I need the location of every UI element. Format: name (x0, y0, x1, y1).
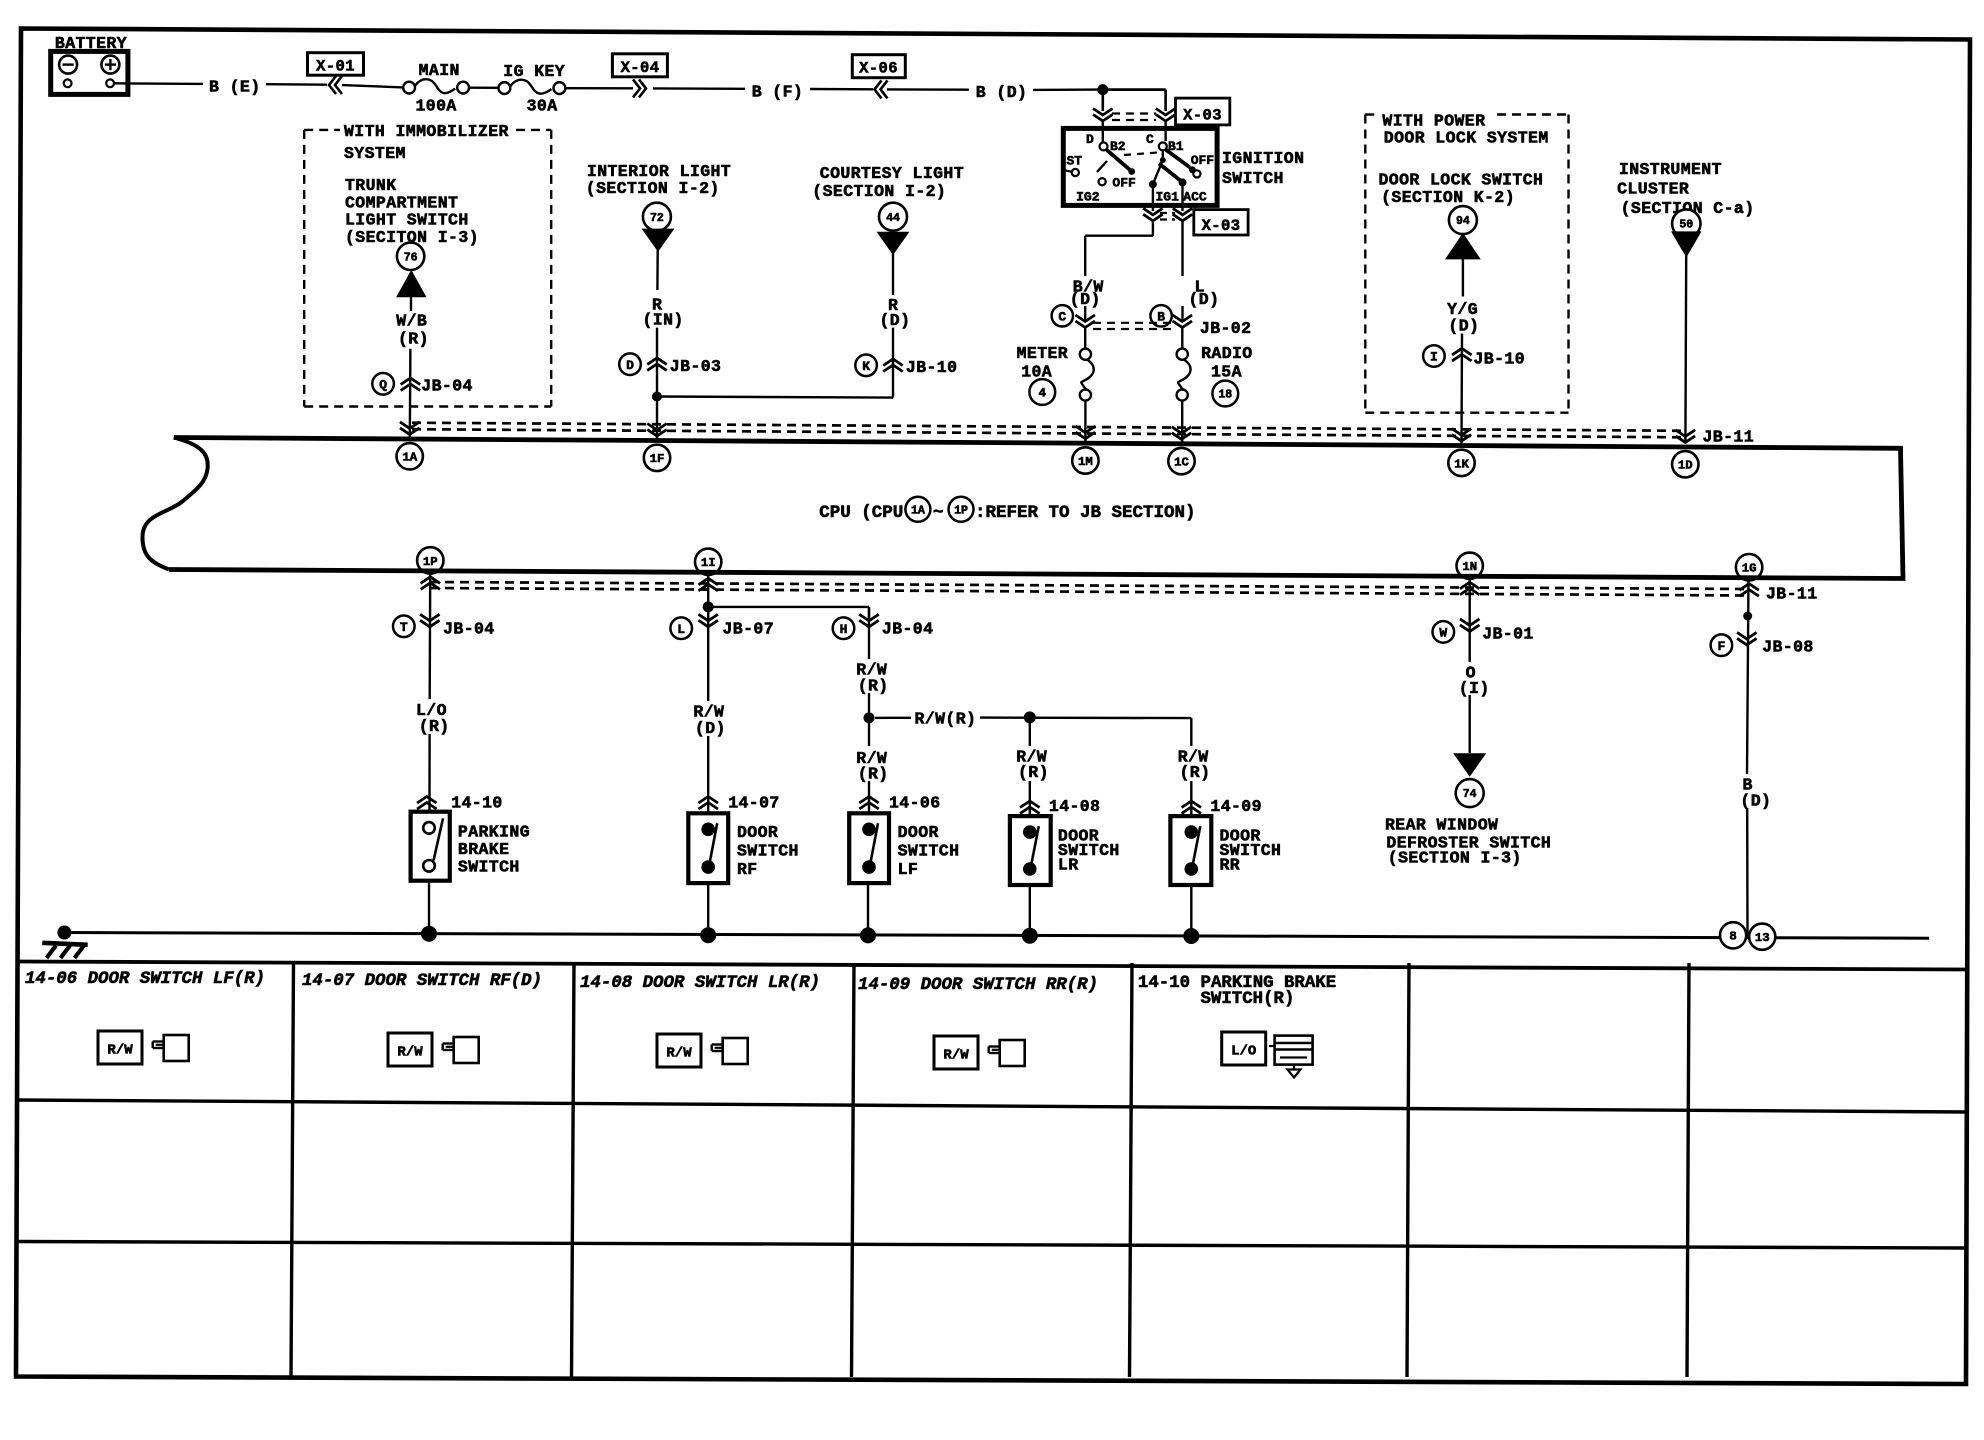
table cell 14-10 wire color L/O and switch icon (1222, 1032, 1313, 1078)
svg-text:X-03: X-03 (1183, 107, 1222, 125)
svg-text:JB-07: JB-07 (723, 619, 775, 638)
wire battery to X-01 (114, 82, 203, 85)
connector X-03 (upper, wires into ignition switch) (1093, 90, 1175, 145)
svg-text:X-04: X-04 (621, 59, 660, 77)
svg-text:CLUSTER: CLUSTER (1617, 180, 1689, 199)
wire to JB-10 K (892, 328, 894, 398)
svg-text:1N: 1N (1462, 560, 1477, 574)
svg-text:IG2: IG2 (1076, 190, 1100, 205)
wire MAIN to IG KEY fuse (469, 86, 498, 89)
svg-text:I: I (1430, 350, 1438, 365)
arrow from instrument cluster (1673, 232, 1700, 255)
svg-text:JB-04: JB-04 (882, 619, 934, 638)
svg-text:(R): (R) (419, 717, 450, 736)
parking brake switch (411, 812, 450, 881)
svg-text:B (D): B (D) (976, 83, 1028, 102)
svg-text:X-03: X-03 (1202, 217, 1241, 235)
svg-text:1I: 1I (701, 556, 716, 570)
svg-text:OFF: OFF (1112, 176, 1136, 191)
svg-text:(R): (R) (1018, 763, 1049, 782)
svg-text:WITH IMMOBILIZER: WITH IMMOBILIZER (344, 122, 509, 141)
arrow from courtesy light (879, 233, 908, 254)
connector 14-08 (1020, 801, 1040, 808)
svg-text:(D): (D) (880, 311, 911, 330)
wire JB-08 F down (1746, 808, 1749, 936)
wire JB-01 W down (1468, 695, 1470, 753)
junction LF branch node (864, 712, 875, 723)
svg-text:BATTERY: BATTERY (55, 34, 127, 53)
svg-text:ACC: ACC (1183, 190, 1207, 205)
battery (51, 51, 128, 94)
connector CPU pin 1N (1457, 553, 1483, 595)
door switch RR (1170, 816, 1211, 885)
svg-text:LF: LF (898, 860, 919, 879)
wire meter fuse to CPU 1M (1084, 401, 1086, 443)
connector X-04 (612, 54, 667, 77)
svg-text:JB-01: JB-01 (1482, 624, 1534, 643)
CPU block torn-edge brace (142, 438, 207, 570)
svg-text:MAIN: MAIN (419, 61, 460, 80)
svg-text:X-06: X-06 (859, 60, 898, 78)
wire 1I junction to door switch RF (707, 607, 709, 621)
svg-text:INSTRUMENT: INSTRUMENT (1619, 160, 1722, 179)
wire door switch RF to ground (707, 883, 709, 935)
svg-text:SWITCH: SWITCH (1222, 169, 1284, 188)
table cell 14-07 wire color R/W and pigtail icon (388, 1033, 479, 1066)
circuit ref 94 (door lock switch) (1449, 206, 1477, 234)
svg-text:L/O: L/O (1231, 1044, 1256, 1060)
junction battery ground to rail (57, 926, 71, 940)
svg-text:REAR WINDOW: REAR WINDOW (1385, 815, 1498, 834)
arrow to door lock switch (1447, 235, 1479, 259)
wire JB-10 K to junction (657, 397, 893, 398)
wire R/W branch LF to LR/RR (875, 717, 911, 720)
svg-text:Q: Q (379, 377, 387, 392)
wire X-01 to MAIN fuse (342, 85, 403, 87)
svg-text:(SECTION K-2): (SECTION K-2) (1381, 188, 1515, 207)
svg-text:JB-08: JB-08 (1762, 638, 1814, 657)
wire LF junction down (868, 718, 870, 746)
svg-text:B (E): B (E) (209, 78, 261, 97)
fuse IG KEY 30A (499, 82, 511, 94)
svg-text:15A: 15A (1211, 362, 1242, 381)
wire ACC to radio fuse (L) (1181, 221, 1183, 276)
svg-text:R/W: R/W (397, 1045, 423, 1061)
svg-text:(I): (I) (1459, 679, 1490, 698)
wire trunk switch lead (410, 296, 412, 311)
CPU block outline (169, 438, 1903, 579)
svg-text:1P: 1P (954, 504, 968, 517)
connector JB-04 pin H (833, 617, 855, 639)
svg-text:18: 18 (1218, 389, 1232, 402)
svg-text:14-07: 14-07 (728, 793, 780, 812)
junction door switch RR ground (1183, 928, 1199, 944)
svg-text:(D): (D) (1448, 317, 1479, 336)
wire JB-07 L down (707, 607, 709, 701)
svg-text:JB-10: JB-10 (1474, 350, 1526, 369)
wire door switch RR to ground (1190, 885, 1192, 936)
svg-text:14-08: 14-08 (1049, 797, 1101, 816)
svg-text:14-10: 14-10 (451, 793, 503, 812)
svg-text:94: 94 (1456, 215, 1470, 228)
svg-text:D: D (1086, 132, 1094, 147)
svg-text:JB-04: JB-04 (421, 377, 473, 396)
svg-text:72: 72 (650, 212, 664, 225)
svg-text:L: L (677, 622, 685, 637)
svg-text:C: C (1146, 132, 1154, 147)
connector JB-02 pin C (1052, 305, 1073, 326)
arrow to trunk light switch (398, 272, 425, 296)
svg-text:10A: 10A (1021, 362, 1052, 381)
junction parking brake ground (421, 926, 437, 942)
svg-text:1D: 1D (1678, 459, 1693, 473)
svg-text:IG1: IG1 (1156, 190, 1180, 205)
door switch LF (849, 813, 889, 883)
svg-text:1P: 1P (423, 555, 438, 569)
svg-text:13: 13 (1755, 931, 1770, 945)
svg-text:74: 74 (1463, 788, 1477, 801)
svg-text:14-09 DOOR SWITCH RR(R): 14-09 DOOR SWITCH RR(R) (858, 976, 1098, 995)
svg-text:IG KEY: IG KEY (503, 62, 565, 81)
svg-text:DOOR: DOOR (898, 823, 939, 842)
connector X-03 label (upper) (1176, 98, 1230, 125)
wire door lock lead (1462, 258, 1464, 296)
wire 1I junction to LF branch (708, 606, 869, 608)
wire door switch LF to ground (867, 883, 869, 935)
svg-text:C: C (1058, 309, 1066, 324)
svg-text:B (F): B (F) (752, 82, 804, 101)
svg-text:1A: 1A (402, 451, 417, 465)
svg-text:ST: ST (1067, 153, 1083, 168)
svg-text:F: F (1717, 639, 1725, 654)
svg-text:JB-04: JB-04 (443, 619, 495, 638)
svg-text:(R): (R) (398, 330, 429, 349)
svg-text:SYSTEM: SYSTEM (344, 144, 406, 163)
wire to JB-03 D (656, 328, 658, 440)
wire parking brake switch to ground (428, 881, 430, 934)
table cell 14-09 wire color R/W and pigtail icon (934, 1036, 1025, 1069)
connector JB-04 pin Q (372, 373, 394, 395)
svg-text:14-09: 14-09 (1210, 797, 1262, 816)
wire X-06 to ignition junction (887, 88, 969, 91)
connector CPU pin 1C (1168, 427, 1194, 474)
svg-text:COMPARTMENT: COMPARTMENT (345, 193, 458, 212)
svg-text:4: 4 (1039, 387, 1047, 401)
circuit ref 76 (trunk compartment light switch) (397, 243, 424, 270)
svg-text:(R): (R) (1180, 763, 1211, 782)
table cell 14-06 wire color R/W and pigtail icon (98, 1031, 189, 1064)
svg-text:CPU (CPU: CPU (CPU (819, 503, 903, 523)
svg-text:R/W: R/W (943, 1048, 969, 1064)
connector CPU pin 1A (397, 422, 423, 469)
wire IG KEY to X-04 (566, 87, 634, 90)
svg-text:LIGHT SWITCH: LIGHT SWITCH (345, 211, 469, 230)
connector X-03 label (lower) (1194, 210, 1248, 235)
connector CPU pin 1M (1072, 426, 1098, 474)
svg-text:T: T (400, 620, 408, 635)
svg-text:D: D (626, 358, 634, 373)
circuit ref 72 (interior light) (643, 203, 671, 231)
JB-02 dashed links and label (1093, 322, 1174, 324)
svg-text:14-07 DOOR SWITCH RF(D): 14-07 DOOR SWITCH RF(D) (302, 972, 542, 991)
ground bus wire (body ground rail) (64, 933, 1929, 939)
svg-text:(R): (R) (858, 676, 889, 695)
connector X-03 (lower) (1143, 205, 1192, 220)
dashed option box WITH IMMOBILIZER SYSTEM (304, 130, 551, 407)
connector 14-06 (859, 797, 879, 804)
arrow to rear window defroster switch (1455, 754, 1484, 775)
connector CPU pin 1P (417, 547, 443, 589)
svg-text:1C: 1C (1174, 456, 1189, 470)
svg-text:JB-11: JB-11 (1766, 585, 1818, 604)
circuit ref 74 (rear window defroster switch) (1456, 779, 1484, 807)
connector 14-09 (1182, 801, 1202, 808)
connector 14-07 (698, 797, 718, 804)
wire IG1 to meter fuse (B/W) (1152, 221, 1154, 236)
svg-text:DOOR: DOOR (737, 823, 778, 842)
svg-text:76: 76 (404, 251, 418, 264)
wire to JB-10 I (1460, 334, 1463, 445)
svg-text:(D): (D) (1070, 290, 1101, 309)
junction CPU 1I node (707, 574, 709, 607)
wire CPU 1G to JB-08 F (1747, 579, 1749, 775)
svg-text:METER: METER (1017, 344, 1069, 363)
svg-text:1G: 1G (1742, 562, 1757, 576)
svg-text:(R): (R) (858, 765, 889, 784)
svg-text:TRUNK: TRUNK (345, 176, 397, 195)
connector JB-02 pin B (1150, 305, 1171, 326)
dashed option box WITH POWER DOOR LOCK SYSTEM (1365, 115, 1568, 413)
connector JB-08 pin F (1711, 634, 1733, 656)
connector JB-10 pin I (1423, 345, 1445, 367)
junction LR branch node (1024, 711, 1036, 723)
wire door switch LR to ground (1029, 885, 1031, 936)
connector CPU pin 1G (1736, 554, 1762, 596)
wire RR corner down (1190, 718, 1192, 746)
svg-text:RADIO: RADIO (1201, 344, 1253, 363)
junction node ignition feed (1097, 84, 1108, 95)
svg-text:100A: 100A (416, 97, 457, 116)
wire cluster to CPU 1D (1684, 256, 1687, 444)
connector JB-01 pin W (1433, 621, 1455, 643)
wire JB-04 T down (428, 734, 431, 812)
svg-text:(D): (D) (695, 719, 726, 738)
svg-text:14-08 DOOR SWITCH LR(R): 14-08 DOOR SWITCH LR(R) (580, 974, 820, 993)
connector CPU pin 1I (695, 549, 721, 591)
svg-text:JB-10: JB-10 (906, 358, 958, 377)
wire interior light lead (656, 250, 659, 290)
svg-text:1M: 1M (1078, 455, 1093, 469)
table cell 14-08 wire color R/W and pigtail icon (657, 1034, 748, 1067)
door switch RF (688, 813, 728, 883)
connector JB-03 pin D (619, 353, 641, 375)
fuse METER 10A (1080, 349, 1091, 360)
wire JB-04 H down (868, 607, 870, 659)
arrow from interior light (644, 230, 673, 251)
svg-text:~: ~ (933, 503, 944, 523)
wire X-04 to X-06 (653, 87, 745, 90)
ground connectors 8 and 13 (1720, 922, 1746, 948)
svg-text:(IN): (IN) (643, 311, 684, 330)
svg-text:R/W: R/W (666, 1046, 692, 1062)
wire junction to ignition switch C (1103, 88, 1166, 91)
svg-text:R/W(R): R/W(R) (915, 710, 977, 729)
svg-text:(SECTION I-3): (SECTION I-3) (1388, 849, 1522, 868)
svg-text:(D): (D) (1189, 290, 1220, 309)
svg-text:30A: 30A (527, 97, 558, 116)
ground symbol (42, 943, 87, 958)
JB-11 dashed bus (lower) (430, 582, 1748, 589)
svg-text:SWITCH: SWITCH (737, 842, 799, 861)
svg-text:14-06: 14-06 (889, 793, 941, 812)
connector JB-04 pin T (393, 616, 415, 638)
fuse MAIN 100A (403, 82, 415, 94)
svg-text:X-01: X-01 (316, 58, 355, 76)
svg-text:COURTESY LIGHT: COURTESY LIGHT (820, 164, 964, 183)
connector CPU pin 1D (1672, 430, 1698, 477)
circuit ref 44 (courtesy light) (879, 203, 907, 231)
svg-text:(SECTION I-2): (SECTION I-2) (586, 179, 720, 198)
svg-text:14-06 DOOR SWITCH LF(R): 14-06 DOOR SWITCH LF(R) (25, 970, 265, 989)
connector table grid (17, 962, 1970, 1378)
svg-text:44: 44 (886, 212, 900, 225)
connector CPU pin 1K (1448, 429, 1474, 476)
junction door switch LR ground (1022, 928, 1038, 944)
svg-text:W/B: W/B (396, 311, 427, 330)
svg-text:1A: 1A (911, 504, 925, 517)
connector JB-07 pin L (670, 617, 692, 639)
svg-text:8: 8 (1729, 930, 1736, 944)
svg-text:BRAKE: BRAKE (458, 840, 510, 859)
door switch LR (1010, 816, 1051, 885)
svg-text:1K: 1K (1454, 457, 1469, 471)
svg-text:LR: LR (1058, 855, 1079, 874)
svg-text:W: W (1439, 626, 1447, 641)
connector X-01 (308, 53, 364, 75)
svg-text:1F: 1F (650, 452, 665, 466)
wire to JB-04 Q (409, 349, 412, 439)
fuse RADIO 15A (1177, 349, 1188, 360)
svg-text:IGNITION: IGNITION (1222, 149, 1304, 168)
junction 1G node (1743, 612, 1752, 621)
wire CPU 1N to JB-01 W (1468, 577, 1470, 662)
circuit ref 4 (1029, 379, 1055, 405)
svg-text:(D): (D) (1740, 791, 1771, 810)
svg-text:SWITCH: SWITCH (898, 842, 960, 861)
connector 14-10 (417, 797, 437, 804)
svg-text:B2: B2 (1110, 139, 1126, 154)
svg-text:DOOR LOCK SYSTEM: DOOR LOCK SYSTEM (1384, 128, 1549, 147)
svg-text:50: 50 (1679, 219, 1693, 232)
svg-text:OFF: OFF (1191, 153, 1215, 168)
JB-11 dashed bus (upper) (412, 423, 1685, 431)
svg-text:JB-03: JB-03 (670, 357, 722, 376)
connector JB-10 pin K (855, 355, 877, 377)
svg-text:SWITCH: SWITCH (458, 858, 520, 877)
svg-text:JB-02: JB-02 (1200, 319, 1252, 338)
svg-text:SWITCH(R): SWITCH(R) (1201, 990, 1295, 1009)
svg-text:PARKING: PARKING (458, 822, 530, 841)
svg-text:K: K (862, 359, 870, 374)
wire radio fuse to CPU 1C (1181, 401, 1183, 443)
wire LR junction down (1029, 717, 1031, 746)
junction door switch RF ground (700, 927, 716, 943)
svg-text:(SECTION I-2): (SECTION I-2) (812, 182, 946, 201)
svg-text::REFER TO JB SECTION): :REFER TO JB SECTION) (975, 503, 1196, 523)
junction interior/courtesy (652, 392, 662, 402)
svg-text:JB-11: JB-11 (1703, 428, 1755, 447)
svg-text:RR: RR (1220, 855, 1241, 874)
circuit ref 18 (1212, 381, 1238, 407)
wire CPU 1P to JB-04 T (429, 574, 432, 699)
connector X-06 (852, 55, 905, 78)
connector CPU pin 1F (644, 424, 670, 472)
wire courtesy light lead (892, 253, 894, 295)
svg-text:RF: RF (737, 860, 758, 879)
CPU label with pin range (819, 497, 1195, 523)
ignition switch box (1063, 128, 1217, 205)
junction door switch LF ground (860, 927, 876, 943)
circuit ref 50 (instrument cluster) (1672, 209, 1700, 237)
svg-text:R/W: R/W (107, 1043, 133, 1059)
svg-text:H: H (840, 622, 848, 637)
